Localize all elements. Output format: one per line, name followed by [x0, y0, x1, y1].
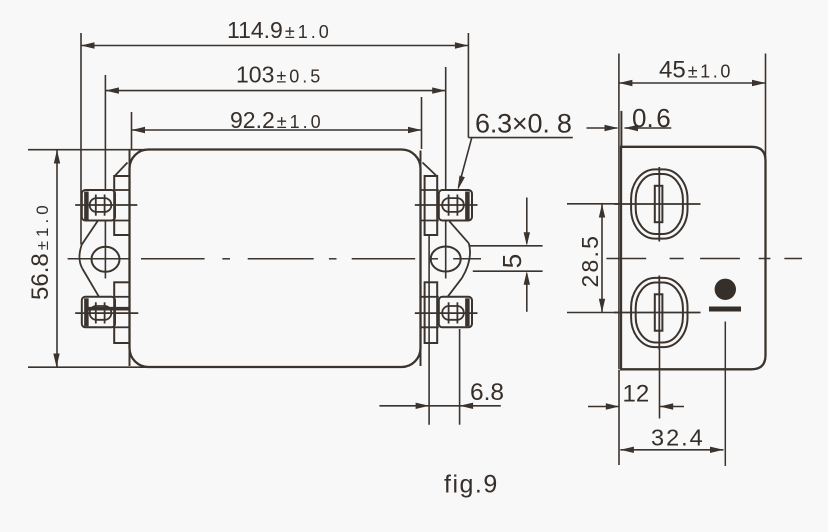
right flange plate edge between tabs: [428, 236, 430, 425]
dimension 92.2 line: [132, 129, 422, 131]
ground terminal dot: [715, 279, 736, 300]
dimension 32.4 line: [620, 449, 723, 451]
screw top: outer ellipse: [631, 169, 687, 238]
svg-text:56.8±1.0: 56.8±1.0: [27, 201, 54, 300]
terminal top-left edge extensions across tab: [115, 189, 130, 191]
centerline left view: [68, 258, 481, 260]
terminal bottom-left block: [75, 297, 138, 328]
svg-text:0.6: 0.6: [632, 103, 671, 133]
svg-text:114.9±1.0: 114.9±1.0: [227, 17, 332, 43]
mounting tab bottom-left: [114, 282, 129, 343]
dimension 12 line and arrows: [588, 406, 619, 408]
svg-text:92.2±1.0: 92.2±1.0: [230, 107, 324, 133]
extension line 114.9 left: [80, 33, 82, 245]
dimension 45 line: [619, 82, 766, 84]
ground terminal bar: [709, 307, 741, 312]
extension line 92.2 right: [421, 97, 423, 149]
svg-text:6.3×0. 8: 6.3×0. 8: [475, 108, 572, 138]
terminal top-right edge extensions across tab: [422, 189, 439, 191]
extension line 103 left / hole centerline: [104, 75, 106, 190]
centerline right view: [606, 258, 802, 260]
right bracket upper diagonal: [449, 221, 468, 243]
svg-text:45±1.0: 45±1.0: [659, 57, 733, 84]
mounting tab top-left: [114, 176, 129, 235]
left bracket arc around hole: [79, 245, 82, 269]
flange strip left of body: [618, 111, 620, 369]
dimension 28.5 extension lines: [567, 203, 620, 205]
right view body outline: [621, 147, 766, 369]
screw bottom: outer ellipse: [631, 278, 687, 347]
dimension 5 lines: [469, 245, 543, 247]
extension line 56.8 top: [28, 149, 146, 151]
svg-text:6.8: 6.8: [470, 379, 504, 406]
right flange plate edge (body right face): [420, 151, 422, 367]
svg-text:12: 12: [623, 381, 650, 408]
screw top crosshair: [658, 167, 660, 242]
extension line 45 right: [765, 54, 767, 161]
terminal bottom-right block: [415, 297, 478, 328]
left view: filter body outline: [130, 150, 421, 368]
mounting tab top-right: [425, 176, 438, 235]
extension line 114.9 right: [467, 33, 469, 138]
dimension 56.8 line: [56, 150, 58, 367]
dimension 114.9 line: [81, 45, 468, 47]
terminal bottom-left edge extensions across tab: [115, 296, 130, 298]
svg-text:5: 5: [497, 254, 527, 268]
flange top-right bevel: [423, 163, 438, 177]
dimension 103 line: [105, 90, 445, 92]
terminal top-right block: [415, 190, 478, 221]
mounting hole left: [92, 247, 120, 272]
left bracket upper diagonal: [82, 221, 98, 245]
extension line 103 right / hole centerline: [445, 67, 447, 190]
terminal top-left block: [75, 190, 137, 221]
svg-text:28.5: 28.5: [577, 234, 603, 288]
leader 6.3x0.8: [468, 137, 572, 139]
dimension 28.5 line: [601, 204, 603, 312]
mounting hole right: [431, 247, 461, 272]
svg-text:fig.9: fig.9: [444, 471, 499, 499]
terminal bottom-right edge extensions across tab: [422, 296, 439, 298]
mounting tab bottom-right: [425, 282, 438, 343]
dimension 0.6 arrows: [587, 127, 618, 129]
extension line 45 left (top part above flange): [618, 54, 620, 111]
dimension 6.8 right extension: [459, 329, 461, 425]
left flange plate edge (body left face): [129, 151, 131, 367]
extension line 56.8 bottom: [28, 366, 151, 368]
right bracket arc around hole: [462, 243, 470, 278]
ground terminal lead line: [724, 322, 726, 467]
svg-text:103±0.5: 103±0.5: [236, 61, 323, 87]
svg-text:32.4: 32.4: [651, 425, 705, 451]
dimension 6.8 line and arrows: [379, 405, 500, 407]
extension line 92.2 left: [131, 112, 133, 149]
screw bottom crosshair: [658, 276, 660, 351]
right bracket lower diagonal: [448, 278, 462, 297]
left bracket lower diagonal: [82, 269, 99, 297]
flange top-left bevel: [114, 163, 127, 177]
dimension 12 extension lines: [618, 370, 620, 465]
